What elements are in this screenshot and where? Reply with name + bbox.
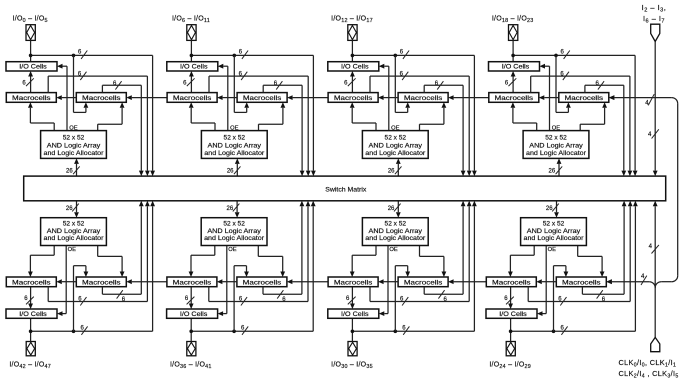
svg-text:I/O Cells: I/O Cells [341, 64, 369, 71]
svg-text:AND Logic Array: AND Logic Array [207, 228, 261, 235]
svg-text:OE: OE [389, 247, 398, 253]
svg-text:OE: OE [228, 247, 237, 253]
svg-text:I/O Cells: I/O Cells [341, 311, 369, 318]
svg-text:I/O Cells: I/O Cells [19, 311, 47, 318]
svg-text:26: 26 [66, 206, 73, 212]
svg-text:AND Logic Array: AND Logic Array [369, 143, 423, 150]
svg-text:I/O Cells: I/O Cells [19, 64, 47, 71]
svg-text:Macrocells: Macrocells [334, 279, 373, 286]
svg-text:Macrocells: Macrocells [82, 95, 121, 102]
svg-text:26: 26 [549, 169, 556, 175]
svg-text:I/O Cells: I/O Cells [180, 311, 208, 318]
svg-text:and Logic Allocator: and Logic Allocator [526, 150, 587, 157]
svg-text:CLK0/I0, CLK1/I1: CLK0/I0, CLK1/I1 [619, 358, 677, 369]
svg-text:I/O Cells: I/O Cells [499, 311, 527, 318]
svg-text:Macrocells: Macrocells [495, 95, 534, 102]
svg-text:52 x 52: 52 x 52 [385, 220, 407, 227]
svg-text:Macrocells: Macrocells [404, 279, 443, 286]
svg-text:Macrocells: Macrocells [173, 95, 212, 102]
svg-text:Macrocells: Macrocells [243, 279, 282, 286]
svg-text:AND Logic Array: AND Logic Array [369, 228, 423, 235]
svg-text:26: 26 [388, 206, 395, 212]
svg-text:and Logic Allocator: and Logic Allocator [365, 235, 426, 242]
svg-text:52 x 52: 52 x 52 [223, 220, 245, 227]
svg-text:I/O Cells: I/O Cells [502, 64, 530, 71]
svg-text:26: 26 [546, 206, 553, 212]
svg-text:52 x 52: 52 x 52 [63, 220, 85, 227]
svg-text:OE: OE [68, 247, 77, 253]
svg-text:and Logic Allocator: and Logic Allocator [365, 150, 426, 157]
svg-text:Switch Matrix: Switch Matrix [325, 187, 367, 194]
svg-text:and Logic Allocator: and Logic Allocator [524, 235, 585, 242]
svg-text:26: 26 [66, 169, 73, 175]
svg-text:AND Logic Array: AND Logic Array [47, 228, 101, 235]
svg-text:and Logic Allocator: and Logic Allocator [204, 235, 265, 242]
svg-text:Macrocells: Macrocells [565, 95, 604, 102]
svg-text:OE: OE [548, 247, 557, 253]
svg-text:26: 26 [388, 169, 395, 175]
svg-text:Macrocells: Macrocells [404, 95, 443, 102]
svg-text:and Logic Allocator: and Logic Allocator [204, 150, 265, 157]
svg-text:AND Logic Array: AND Logic Array [208, 143, 262, 150]
svg-text:Macrocells: Macrocells [12, 95, 51, 102]
svg-text:Macrocells: Macrocells [12, 279, 51, 286]
svg-text:52 x 52: 52 x 52 [63, 134, 85, 141]
svg-text:26: 26 [227, 206, 234, 212]
svg-text:52 x 52: 52 x 52 [543, 220, 565, 227]
svg-text:Macrocells: Macrocells [334, 95, 373, 102]
svg-text:AND Logic Array: AND Logic Array [529, 143, 583, 150]
svg-text:and Logic Allocator: and Logic Allocator [44, 235, 105, 242]
svg-text:Macrocells: Macrocells [173, 279, 212, 286]
svg-text:AND Logic Array: AND Logic Array [527, 228, 581, 235]
svg-text:Macrocells: Macrocells [243, 95, 282, 102]
svg-text:AND Logic Array: AND Logic Array [47, 143, 101, 150]
svg-text:Macrocells: Macrocells [82, 279, 121, 286]
svg-text:I/O Cells: I/O Cells [180, 64, 208, 71]
svg-text:Macrocells: Macrocells [492, 279, 531, 286]
svg-text:26: 26 [227, 169, 234, 175]
svg-text:52 x 52: 52 x 52 [385, 134, 407, 141]
svg-text:and Logic Allocator: and Logic Allocator [44, 150, 105, 157]
svg-text:Macrocells: Macrocells [562, 279, 601, 286]
svg-text:52 x 52: 52 x 52 [224, 134, 246, 141]
svg-text:52 x 52: 52 x 52 [545, 134, 567, 141]
